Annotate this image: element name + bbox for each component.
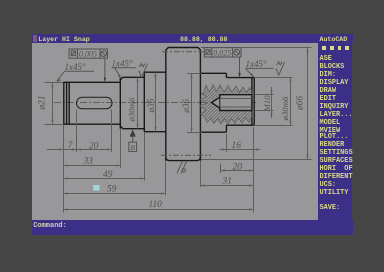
dim d21	[45, 83, 64, 125]
dim M10	[255, 87, 274, 118]
datum B symbol	[129, 142, 137, 151]
dim 49	[64, 178, 145, 180]
broken-out section jagged hatch region	[200, 85, 252, 125]
command bar	[32, 220, 353, 235]
keyway slot	[77, 97, 113, 109]
extension line keyway left	[76, 110, 78, 153]
dim 20 right	[221, 170, 254, 172]
svg-text:1x45°: 1x45°	[65, 62, 86, 72]
tolerance frame right	[204, 48, 241, 57]
roughness symbol right	[276, 62, 285, 76]
shaft end ring left	[64, 82, 67, 124]
gear pitch dash-dot bottom	[161, 154, 211, 156]
status text Layer HI Snap	[38, 36, 89, 43]
extension line keyway right	[111, 110, 113, 153]
svg-text:49: 49	[103, 170, 113, 180]
roughness symbol step2	[139, 64, 148, 78]
svg-text:110: 110	[149, 200, 163, 210]
dim 59	[64, 193, 166, 195]
svg-text:33: 33	[83, 157, 94, 167]
blip marker	[93, 185, 100, 191]
centerline	[54, 102, 259, 104]
leader from frame left	[104, 59, 106, 79]
dim d66	[201, 48, 312, 160]
svg-text:ø66: ø66	[295, 96, 305, 111]
svg-text:1x45°: 1x45°	[246, 59, 267, 69]
svg-text:ø35: ø35	[147, 98, 157, 113]
extension line tooth step	[226, 134, 228, 152]
svg-text:ø35: ø35	[182, 98, 192, 113]
svg-text:20: 20	[233, 162, 243, 172]
dim d35 toothed	[187, 74, 202, 133]
command prompt	[33, 222, 67, 230]
title bar color square	[33, 35, 38, 42]
four stars row	[322, 46, 326, 50]
right section d30m6	[226, 78, 254, 126]
dim 33	[64, 165, 121, 167]
svg-text:B: B	[130, 143, 135, 152]
extension line step2	[144, 132, 146, 181]
svg-text:0,025: 0,025	[213, 48, 231, 57]
extension line right face	[253, 127, 255, 213]
gear blank d66	[166, 48, 201, 161]
shaft section d30m6	[120, 77, 144, 128]
title bar	[32, 34, 353, 43]
toothed section d35	[200, 73, 226, 132]
svg-text:ø21: ø21	[37, 95, 47, 110]
extension line thread end	[220, 164, 222, 174]
dim 16	[220, 149, 261, 151]
AutoCAD label	[320, 36, 348, 43]
extension line step1	[120, 129, 122, 168]
leader from frame right	[239, 57, 241, 74]
svg-text:59: 59	[107, 184, 117, 194]
shaft section d35	[144, 72, 166, 132]
dim d35 first	[155, 73, 157, 132]
svg-text:1x45°: 1x45°	[112, 59, 133, 69]
svg-text:16: 16	[232, 141, 242, 151]
dim 31	[201, 185, 254, 187]
dim 7 and 20 row	[47, 149, 112, 151]
svg-text:ø30m6: ø30m6	[280, 96, 290, 122]
svg-text:M10: M10	[262, 95, 272, 113]
dim d30m6 left	[137, 78, 139, 129]
extension line gear right	[200, 161, 202, 187]
svg-text:20: 20	[89, 142, 99, 152]
side screen menu	[318, 43, 352, 234]
roughness symbol bottom	[177, 162, 186, 174]
coordinates readout	[180, 36, 227, 43]
extension line left face	[63, 125, 65, 213]
svg-text:ø30m6: ø30m6	[126, 97, 136, 123]
svg-text:31: 31	[222, 177, 232, 187]
extension line gear left	[165, 161, 167, 196]
shaft section d21	[63, 82, 120, 124]
tolerance frame left	[69, 49, 108, 58]
center hole M10	[212, 95, 252, 111]
dim 110	[64, 209, 254, 211]
thread minor lines	[220, 98, 252, 107]
drawing area	[32, 43, 319, 219]
gear pitch dash-dot top	[162, 51, 204, 53]
svg-text:0,005: 0,005	[79, 50, 97, 59]
dim d30m6 right	[255, 78, 293, 126]
